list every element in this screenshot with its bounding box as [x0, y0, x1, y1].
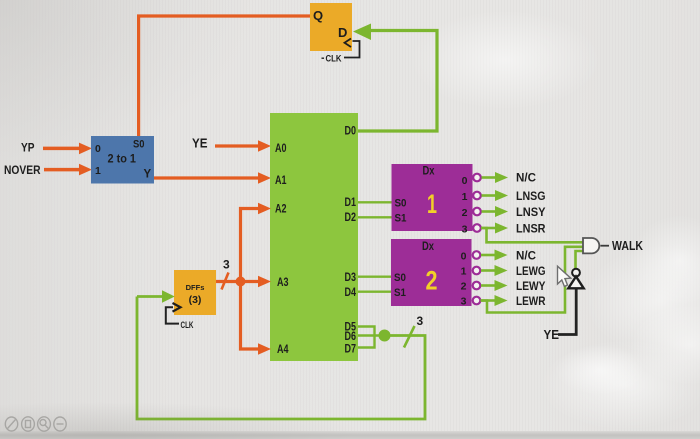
mux U2 2-to-1 [91, 136, 154, 184]
wire D3 to S0 [358, 276, 391, 278]
svg-text:S1: S1 [394, 287, 406, 299]
output 1 U4 LNSG [473, 190, 545, 203]
wire bus to A4 [241, 282, 272, 355]
decoder U4 [392, 164, 473, 236]
output 1 U5 LEWG [473, 265, 546, 278]
clock pin U6 [173, 303, 181, 312]
wire Y to A1 [154, 172, 271, 184]
svg-text:LNSY: LNSY [516, 207, 546, 219]
junction DFFs bus [236, 277, 246, 287]
svg-text:A0: A0 [275, 143, 287, 155]
svg-text:S0: S0 [394, 272, 406, 284]
svg-text:D: D [338, 25, 347, 40]
svg-text:0: 0 [461, 251, 467, 263]
svg-text:N/C: N/C [516, 251, 536, 263]
svg-text:D0: D0 [345, 126, 357, 138]
svg-text:YE: YE [544, 328, 560, 342]
svg-text:Q: Q [313, 8, 323, 23]
AND gate WALK [583, 238, 609, 253]
bus slash 3 (DFFs) [222, 273, 229, 290]
svg-text:A1: A1 [275, 175, 287, 187]
svg-text:Dx: Dx [422, 241, 434, 253]
svg-text:WALK: WALK [612, 238, 643, 253]
wire Q to S0 [139, 16, 310, 136]
svg-text:3: 3 [461, 296, 467, 308]
wire DFFs to A3 [216, 276, 271, 288]
inverter YE [568, 269, 583, 289]
svg-text:Y: Y [144, 169, 152, 181]
wire D1 to S0 [358, 201, 392, 203]
output 3 U4 LNSR [473, 223, 546, 236]
svg-text:CLK: CLK [181, 320, 194, 331]
svg-text:1: 1 [427, 189, 437, 219]
svg-text:D3: D3 [345, 272, 357, 284]
svg-text:2 to 1: 2 to 1 [108, 152, 137, 166]
wire CLK U6 [166, 307, 179, 323]
wire YE arrow [215, 140, 271, 152]
svg-text:1: 1 [95, 165, 101, 177]
DFF bank U6 [174, 270, 216, 315]
svg-text:D1: D1 [345, 197, 357, 209]
output 0 U4 N/C [473, 172, 536, 185]
wire YP arrow [43, 143, 92, 155]
svg-text:LNSR: LNSR [516, 224, 546, 236]
svg-text:YP: YP [21, 143, 35, 155]
svg-text:DFFs: DFFs [186, 283, 205, 292]
wire DFFs input arrow [137, 290, 175, 302]
svg-text:LEWY: LEWY [516, 281, 546, 293]
svg-text:3: 3 [223, 258, 230, 272]
svg-text:A4: A4 [277, 344, 289, 356]
wire D2 to S1 [358, 216, 392, 218]
mouse cursor [558, 266, 571, 286]
svg-text:LEWG: LEWG [516, 266, 546, 278]
svg-text:LNSG: LNSG [516, 191, 546, 203]
output 3 U5 LEWR [473, 295, 546, 308]
wire D6 to bus junction [358, 334, 380, 336]
svg-text:0: 0 [95, 143, 101, 155]
output 0 U5 N/C [473, 250, 536, 263]
toolbar icon magnifier [38, 417, 51, 431]
wire LEWR tap to AND gate [481, 247, 584, 313]
wire bus feedback loop [137, 297, 425, 420]
toolbar icon copy [22, 417, 35, 431]
svg-text:2: 2 [462, 207, 468, 219]
decoder U5 [391, 239, 472, 308]
svg-text:A2: A2 [275, 204, 287, 216]
clock pin U1 [345, 39, 352, 48]
svg-text:S1: S1 [395, 213, 407, 225]
svg-text:A3: A3 [277, 277, 289, 289]
svg-text:N/C: N/C [516, 173, 536, 185]
svg-text:1: 1 [462, 191, 468, 203]
output 2 U4 LNSY [473, 206, 546, 219]
wire bus to A2 [241, 203, 272, 282]
svg-text:3: 3 [462, 224, 468, 236]
junction D5-D7 bus [379, 330, 391, 342]
svg-text:3: 3 [417, 314, 424, 328]
wire D4 to S1 [358, 291, 391, 293]
svg-text:S0: S0 [395, 198, 407, 210]
wire D7 to bus junction [358, 336, 375, 348]
wire D5 to bus junction [358, 327, 375, 336]
svg-text:D4: D4 [345, 287, 357, 299]
svg-text:Dx: Dx [423, 166, 435, 178]
wire D0 feedback [353, 24, 437, 132]
svg-text:(3): (3) [189, 294, 202, 306]
D flip-flop U1 [310, 3, 352, 51]
output 2 U5 LEWY [473, 280, 546, 293]
toolbar icon pencil [5, 417, 17, 431]
toolbar icon minus [54, 417, 66, 431]
ROM U3 [270, 113, 358, 361]
wire LNSR tap to AND gate [481, 228, 583, 242]
label CLK U1 [322, 54, 342, 64]
wire YE to inverter [558, 290, 576, 335]
shading bottom-left [0, 0, 1, 1]
wire inverter to AND gate [576, 251, 584, 269]
svg-text:D6: D6 [345, 331, 357, 343]
wire NOVER arrow [44, 164, 92, 176]
svg-text:2: 2 [426, 266, 438, 296]
bus slash 3 (D5-D7) [404, 326, 415, 348]
svg-text:2: 2 [461, 281, 467, 293]
svg-text:D7: D7 [345, 344, 357, 356]
svg-text:CLK: CLK [326, 54, 342, 64]
svg-text:YE: YE [192, 137, 208, 151]
svg-text:S0: S0 [133, 139, 145, 151]
svg-text:LEWR: LEWR [516, 296, 546, 308]
wire CLK U1 [344, 41, 360, 58]
svg-text:D2: D2 [345, 212, 357, 224]
svg-text:NOVER: NOVER [4, 163, 41, 177]
svg-text:0: 0 [462, 175, 468, 187]
svg-text:1: 1 [461, 266, 467, 278]
